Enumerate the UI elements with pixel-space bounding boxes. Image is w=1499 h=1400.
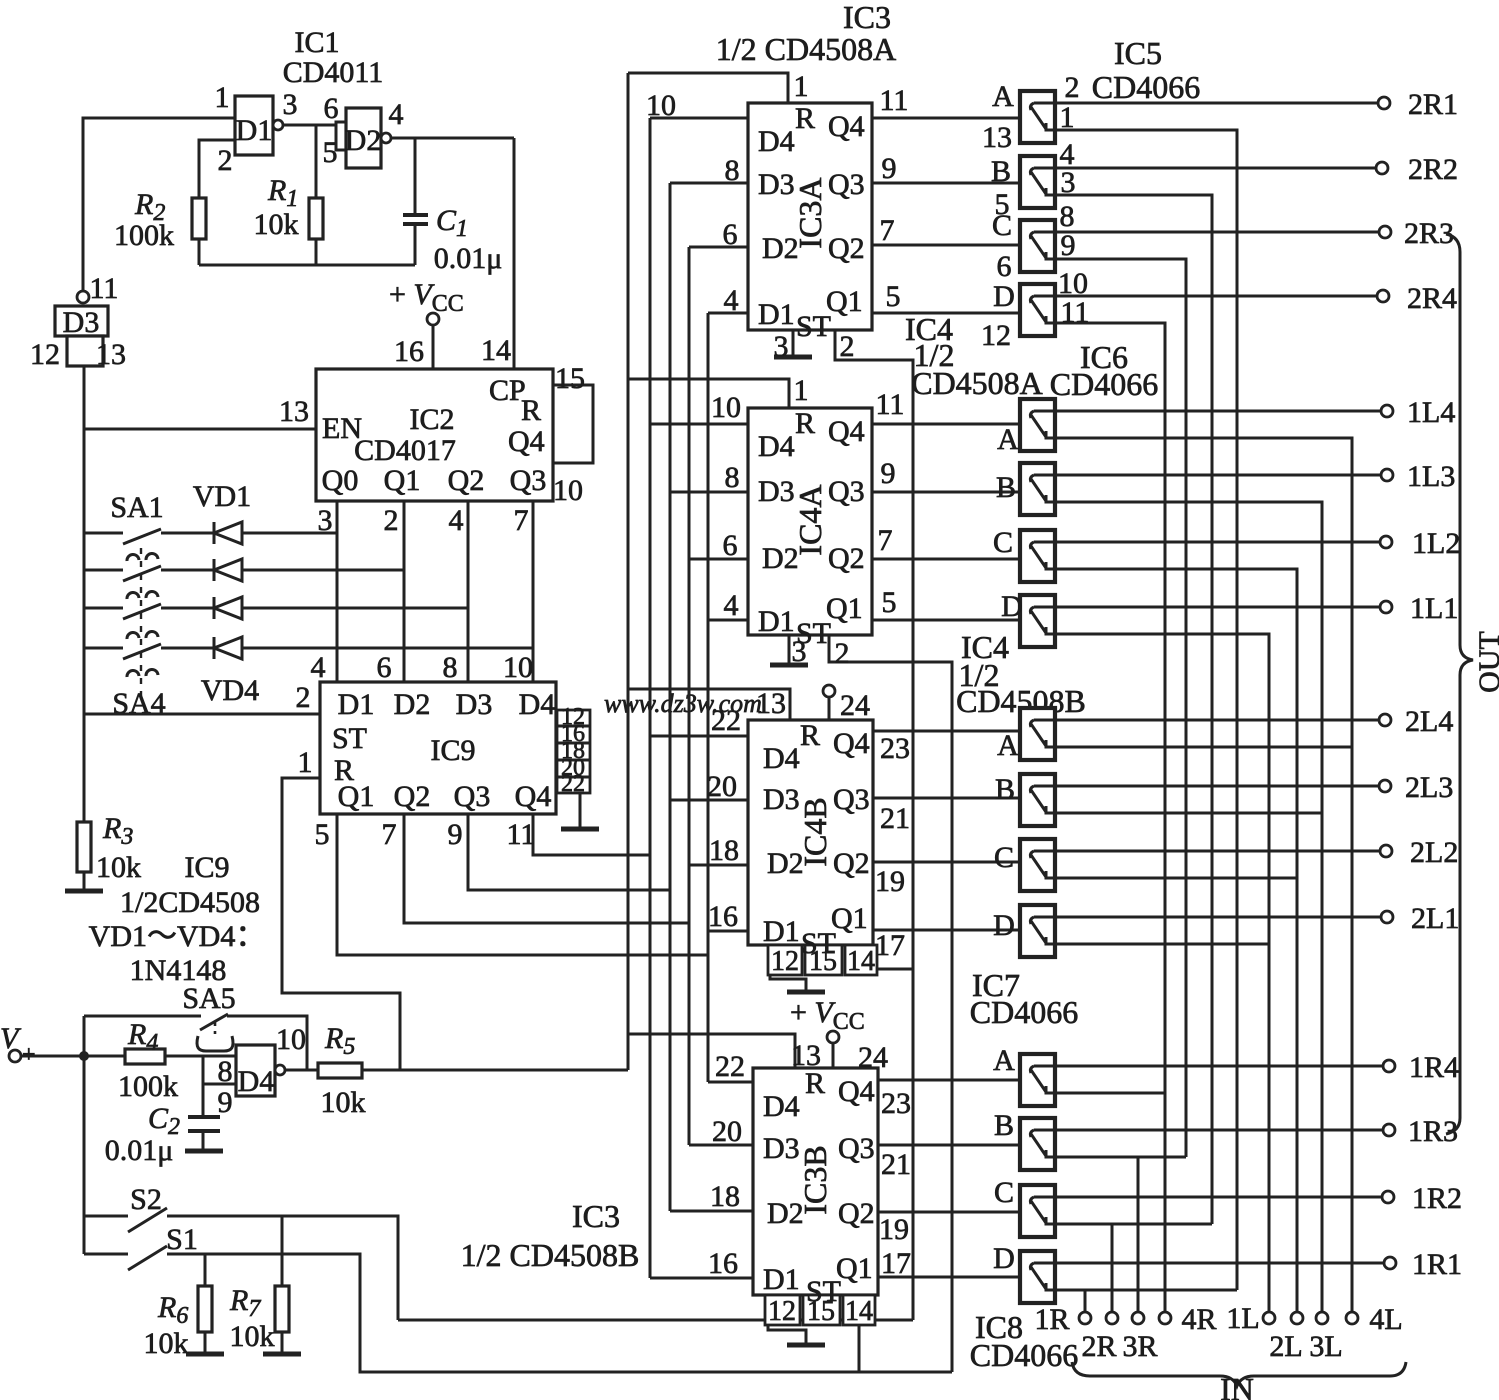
wire ST chain S1 vertical (829, 635, 952, 1372)
wire IC3B D3 input pin20 (689, 1144, 753, 1147)
svg-text:Q4: Q4 (833, 727, 870, 760)
wire IC4B Q3 to switch B (873, 797, 1020, 800)
svg-text:1R: 1R (1034, 1303, 1069, 1336)
svg-text:D2: D2 (394, 688, 431, 721)
wire IC3B Q1 to switch D (878, 1276, 1020, 1279)
svg-text:B: B (995, 773, 1015, 806)
switch SA1 (84, 532, 123, 535)
svg-text:8: 8 (218, 1055, 233, 1088)
svg-text:4L: 4L (1369, 1303, 1402, 1336)
terminal 2L2 (1380, 845, 1392, 857)
svg-text:20: 20 (707, 770, 737, 803)
wire R3 to ground (83, 872, 86, 891)
svg-text:6: 6 (723, 529, 738, 562)
wire VD1 to Q0 column (242, 532, 337, 535)
wire R6 to ground (204, 1332, 207, 1353)
svg-text:2R4: 2R4 (1407, 282, 1457, 315)
svg-text:D3: D3 (763, 783, 800, 816)
wire IC4A pin3 to ground (788, 635, 791, 664)
wire IC4B pin12 ground lead (770, 975, 806, 991)
svg-text:D4: D4 (763, 742, 800, 775)
switch IC6-C (1020, 530, 1055, 582)
svg-text:1L: 1L (1226, 1302, 1259, 1335)
wire 1R stub (1084, 1290, 1087, 1311)
switch IC7-C (1020, 839, 1055, 891)
svg-text:13: 13 (96, 338, 126, 371)
wire IC4A D1 input (708, 619, 748, 622)
wire IC6-D out to 1L1 (1055, 606, 1380, 609)
svg-text:Q3: Q3 (454, 780, 491, 813)
wire IC5-A in to 1R net (1055, 130, 1237, 1290)
svg-text:11: 11 (880, 84, 909, 117)
svg-text:1: 1 (215, 81, 230, 114)
wire IC5-D in to 4R net (1055, 323, 1165, 1311)
wire reset branch to IC4A pin1 (628, 379, 789, 408)
svg-text:23: 23 (881, 1087, 911, 1120)
svg-text:Q2: Q2 (394, 780, 431, 813)
wire IC8-C out to 1R2 (1055, 1196, 1382, 1199)
svg-text:D: D (993, 909, 1015, 942)
svg-text:8: 8 (725, 154, 740, 187)
svg-text:D1: D1 (338, 688, 375, 721)
svg-text:C: C (994, 1176, 1014, 1209)
wire IC7-D in joins 1L net (1055, 943, 1269, 946)
svg-text:IC1: IC1 (295, 26, 340, 59)
svg-text:6: 6 (377, 651, 392, 684)
terminal 2L3 (1379, 780, 1391, 792)
svg-text:17: 17 (875, 929, 905, 962)
wire IC9 Q2 output to data bus D2 (404, 814, 689, 923)
svg-text:Q2: Q2 (838, 1197, 875, 1230)
svg-text:1L4: 1L4 (1407, 396, 1455, 429)
terminal 2L4 (1379, 714, 1391, 726)
svg-text:D: D (993, 1242, 1015, 1275)
svg-text:1R1: 1R1 (1412, 1248, 1462, 1281)
diode VD4 (214, 637, 242, 659)
IC4B box (748, 720, 873, 945)
svg-text:Q4: Q4 (515, 780, 552, 813)
svg-text:7: 7 (382, 818, 397, 851)
switch IC5-B (1020, 156, 1055, 208)
wire IC6-C in to 2L net (1055, 569, 1297, 1311)
svg-text:OUT: OUT (1473, 631, 1499, 693)
svg-text:17: 17 (881, 1247, 911, 1280)
svg-text:IC4B: IC4B (797, 797, 833, 866)
svg-text:D1: D1 (763, 1263, 800, 1296)
svg-text:21: 21 (880, 802, 910, 835)
svg-text:Q2: Q2 (448, 464, 485, 497)
svg-text:14: 14 (845, 1296, 873, 1327)
wire IC3B D1 input pin16 (650, 1277, 753, 1280)
svg-text:2: 2 (1065, 71, 1080, 104)
svg-text:9: 9 (448, 818, 463, 851)
terminal 1R1 (1384, 1257, 1396, 1269)
svg-text:IC3: IC3 (843, 0, 891, 35)
svg-text:22: 22 (711, 704, 741, 737)
ground IC4A pin3 (770, 663, 808, 668)
wire data bus Q3 vertical (669, 183, 672, 1211)
wire IC4A Q1 to switch D (872, 619, 1020, 622)
svg-text:10: 10 (553, 474, 583, 507)
wire IC6-A in to 4L net (1055, 438, 1352, 1311)
wire D2 output to CP line (391, 137, 514, 140)
wire data bus Q1 vertical (707, 313, 710, 1082)
svg-text:2: 2 (384, 504, 399, 537)
wire R7 upper lead (281, 1216, 284, 1286)
wire S2 to ST chain (167, 1216, 398, 1320)
svg-text:2L: 2L (1269, 1330, 1302, 1363)
svg-text:5: 5 (315, 818, 330, 851)
wire R4 to D4 pin8 (165, 1055, 236, 1058)
wire IC5-D out to 2R4 (1055, 295, 1377, 298)
ground IC4B (787, 990, 825, 995)
wire IC4B Q2 to switch C (873, 861, 1020, 864)
wire IC3B pin14 drop to S1 line (858, 1325, 861, 1372)
wire D4 output to R5 (285, 1069, 318, 1072)
svg-text:Q1: Q1 (826, 592, 863, 625)
svg-text:D: D (1001, 590, 1023, 623)
svg-text:B: B (994, 1109, 1014, 1142)
brace OUT (1446, 234, 1473, 1134)
wire reset branch to IC3B pin13 (628, 1034, 795, 1068)
svg-text:IC3B: IC3B (797, 1145, 833, 1214)
svg-text:4: 4 (724, 589, 739, 622)
svg-text:4: 4 (311, 651, 326, 684)
wire D4 pin9 stub (203, 1083, 236, 1086)
wire CP vertical to IC2 pin14 (513, 138, 516, 369)
wire C2 to ground (202, 1131, 205, 1150)
wire IC4B Vcc stub pin24 (828, 696, 831, 720)
terminal 4L (1346, 1312, 1358, 1324)
gate D4 (236, 1045, 275, 1096)
wire IC6-D in to 1L net (1055, 634, 1269, 1311)
svg-text:D4: D4 (758, 125, 795, 158)
svg-text:Q2: Q2 (828, 232, 865, 265)
svg-text:CD4066: CD4066 (970, 994, 1078, 1030)
wire IC6-A out to 1L4 (1055, 410, 1381, 413)
wire stack to ground (579, 793, 582, 828)
wire IC7-C out to 2L2 (1055, 850, 1380, 853)
svg-text:D1: D1 (236, 114, 273, 147)
terminal 1R2 (1382, 1191, 1394, 1203)
pin box 14 of IC3B (843, 1295, 875, 1325)
svg-text:12: 12 (981, 319, 1011, 352)
terminal 1R3 (1383, 1124, 1395, 1136)
terminal 4R (1159, 1312, 1171, 1324)
svg-text:Q0: Q0 (322, 464, 359, 497)
wire IC3B D4 input pin22 (708, 1081, 753, 1084)
wire IC9 Q1 output to data bus D1 (337, 814, 708, 955)
svg-text:D: D (993, 280, 1015, 313)
svg-text:2: 2 (296, 681, 311, 714)
svg-text:R: R (800, 719, 820, 752)
svg-text:Q1: Q1 (836, 1252, 873, 1285)
resistor R5 (318, 1063, 362, 1078)
wire R6 upper lead (204, 1254, 207, 1286)
svg-text:D3: D3 (763, 1132, 800, 1165)
gate D2 (346, 108, 381, 168)
wire D4 input tie (202, 1056, 205, 1117)
wire R5 output to reset bus (362, 1069, 628, 1072)
svg-text:2R1: 2R1 (1408, 88, 1458, 121)
terminal V+ (9, 1050, 21, 1062)
svg-text:S2: S2 (130, 1183, 162, 1216)
svg-text:3L: 3L (1309, 1330, 1342, 1363)
svg-text:B: B (996, 471, 1016, 504)
svg-text:1: 1 (298, 746, 313, 779)
wire IC3B D2 input pin18 (670, 1210, 753, 1213)
ground C2 (185, 1149, 223, 1154)
svg-text:4: 4 (724, 284, 739, 317)
svg-text:S1: S1 (166, 1223, 198, 1256)
wire IC8-A out to 1R4 (1055, 1065, 1383, 1068)
svg-text:2R: 2R (1081, 1330, 1116, 1363)
wire R2 bottom to rail (198, 239, 201, 265)
svg-text:12: 12 (768, 1296, 796, 1327)
svg-text:ST: ST (796, 310, 831, 343)
svg-text:Q4: Q4 (508, 425, 545, 458)
svg-text:Q1: Q1 (384, 464, 421, 497)
wire IC3A D4 input (650, 117, 748, 120)
switch SA5 contact (197, 1036, 233, 1051)
switch IC8-C (1020, 1185, 1055, 1237)
ground IC3A pin3 (774, 355, 812, 360)
pin box 15 of IC4B (805, 945, 842, 975)
svg-text:IC3: IC3 (572, 1198, 620, 1234)
svg-text:7: 7 (514, 504, 529, 537)
wire IC6-C out to 1L2 (1055, 541, 1380, 544)
wire IC8-A in joins 4R net (1055, 1092, 1165, 1095)
svg-text:1R2: 1R2 (1412, 1182, 1462, 1215)
svg-text:5: 5 (323, 136, 338, 169)
svg-text:CD4017: CD4017 (354, 434, 456, 467)
terminal 2L (1291, 1312, 1303, 1324)
svg-text:D4: D4 (763, 1090, 800, 1123)
terminal 1L2 (1380, 536, 1392, 548)
capacitor C1 (403, 213, 428, 217)
IC3B box (753, 1068, 878, 1295)
node junction V+ (79, 1051, 89, 1061)
wire IC5-B in to 2R net (1055, 195, 1212, 1224)
svg-text:1L3: 1L3 (1407, 460, 1455, 493)
wire node to R1 top (315, 125, 318, 198)
gate D3 (55, 306, 108, 336)
svg-text:D4: D4 (519, 688, 556, 721)
svg-text:18: 18 (710, 1180, 740, 1213)
svg-text:5: 5 (882, 586, 897, 619)
svg-text:10k: 10k (144, 1327, 189, 1360)
wire IC4B D4 input pin22 (650, 735, 748, 738)
wire Q0 column to IC9 D1 (336, 501, 339, 682)
svg-text:11: 11 (507, 818, 536, 851)
svg-text:14: 14 (847, 946, 875, 977)
svg-text:IC4A: IC4A (792, 484, 828, 555)
svg-text:7: 7 (880, 214, 895, 247)
wire IC3B Vcc stub pin24 (832, 1042, 835, 1068)
svg-text:4: 4 (449, 504, 464, 537)
terminal 1L (1263, 1312, 1275, 1324)
wire IC4A Q2 to switch C (872, 558, 1020, 561)
svg-text:R: R (521, 394, 541, 427)
switch IC8-A (1020, 1054, 1055, 1106)
svg-text:0.01μ: 0.01μ (105, 1134, 174, 1167)
svg-text:16: 16 (708, 1247, 738, 1280)
switch SA5 blade (200, 1014, 228, 1030)
svg-text:15: 15 (555, 362, 585, 395)
svg-text:A: A (992, 80, 1014, 113)
svg-text:20: 20 (712, 1115, 742, 1148)
wire IC7-C in joins 2L net (1055, 877, 1297, 880)
svg-text:0.01μ: 0.01μ (434, 242, 503, 275)
diode VD3 (214, 597, 242, 619)
wire IC3B Q2 to switch C (878, 1211, 1020, 1214)
svg-text:2: 2 (840, 330, 855, 363)
terminal 2R2 (1376, 162, 1388, 174)
svg-text:1/2CD4508: 1/2CD4508 (120, 886, 260, 919)
wire IC9 Q4 output to data bus D4 (533, 814, 650, 855)
svg-text:Q4: Q4 (838, 1075, 875, 1108)
svg-text:Q1: Q1 (826, 285, 863, 318)
wire IC3A D1 input (708, 312, 748, 315)
svg-text:CD4011: CD4011 (283, 56, 384, 89)
IC2 box (316, 369, 553, 501)
switch S2 (84, 1215, 128, 1218)
svg-text:D3: D3 (63, 306, 100, 339)
wire SA5 rail to D4 output node (227, 1016, 307, 1070)
svg-text:CD4066: CD4066 (1050, 366, 1158, 402)
svg-text:1: 1 (1060, 101, 1075, 134)
svg-text:24: 24 (840, 689, 870, 722)
wire reset branch to IC3A pin1 (628, 73, 788, 103)
svg-text:1: 1 (794, 70, 809, 103)
terminal 1L4 (1381, 405, 1393, 417)
svg-text:1R4: 1R4 (1409, 1051, 1459, 1084)
svg-text:1/2 CD4508A: 1/2 CD4508A (716, 31, 896, 67)
terminal 2R1 (1378, 97, 1390, 109)
svg-text:3: 3 (774, 330, 789, 363)
svg-text:IC9: IC9 (185, 851, 230, 884)
wire IC7-D out to 2L1 (1055, 916, 1381, 919)
wire IC5-B out to 2R2 (1055, 167, 1376, 170)
svg-text:2: 2 (835, 637, 850, 670)
wire VD2 to Q1 column (242, 569, 404, 572)
wire IC3A Q3 to switch B (872, 182, 1020, 185)
wire IC3A Q1 to switch D (872, 312, 1020, 315)
resistor R3 (77, 822, 91, 872)
svg-text:ST: ST (806, 1275, 841, 1308)
wire IC8-B in joins 3R net (1055, 1156, 1186, 1159)
svg-text:18: 18 (709, 834, 739, 867)
svg-text:14: 14 (481, 334, 511, 367)
svg-text:5: 5 (886, 280, 901, 313)
svg-text:B: B (991, 155, 1011, 188)
svg-text:R: R (795, 102, 815, 135)
svg-text:A: A (997, 423, 1019, 456)
svg-text:D3: D3 (456, 688, 493, 721)
wire IC4B D3 input pin20 (670, 799, 748, 802)
svg-text:D1: D1 (758, 298, 795, 331)
svg-text:7: 7 (878, 524, 893, 557)
svg-text:10: 10 (646, 89, 676, 122)
wire Q2 column to IC9 D3 (467, 501, 470, 682)
ground R6 (186, 1352, 224, 1357)
svg-text:Q3: Q3 (833, 783, 870, 816)
svg-text:D3: D3 (758, 475, 795, 508)
svg-text:IC3A: IC3A (792, 177, 828, 248)
svg-text:1L2: 1L2 (1412, 527, 1460, 560)
wire D2 input pins 6,5 (336, 122, 346, 150)
svg-text:19: 19 (879, 1213, 909, 1246)
svg-text:D4: D4 (238, 1065, 275, 1098)
switch IC8-D (1020, 1251, 1055, 1303)
wire IC3A D2 input (689, 246, 748, 249)
svg-text:8: 8 (725, 461, 740, 494)
IC9 unused pin stack 12,16,18,20,22 (557, 710, 590, 793)
svg-text:1L1: 1L1 (1410, 592, 1458, 625)
svg-text:D1: D1 (758, 605, 795, 638)
wire data bus Q4 vertical (649, 118, 652, 1278)
svg-text:2L3: 2L3 (1405, 771, 1453, 804)
wire IC4B D2 input pin18 (689, 864, 748, 867)
wire reset loop pins 15-10 (553, 385, 593, 463)
wire IC8-D in joins 1R net (1055, 1289, 1237, 1292)
pin box 14 of IC4B (845, 945, 877, 975)
svg-text:4R: 4R (1181, 1303, 1216, 1336)
terminal 3R (1132, 1312, 1144, 1324)
svg-text:10k: 10k (96, 851, 141, 884)
wire IC5-A out to 2R1 (1055, 102, 1378, 105)
terminal 1L1 (1380, 601, 1392, 613)
svg-text:13: 13 (756, 687, 786, 720)
svg-text:2L1: 2L1 (1411, 902, 1459, 935)
terminal 2R4 (1377, 290, 1389, 302)
svg-text:3: 3 (283, 88, 298, 121)
resistor R1 (309, 198, 323, 239)
terminal 3L (1316, 1312, 1328, 1324)
wire reset bus vertical (627, 73, 630, 1070)
svg-text:IC5: IC5 (1114, 35, 1162, 71)
svg-text:13: 13 (279, 395, 309, 428)
svg-text:SA1: SA1 (110, 491, 163, 524)
svg-text:11: 11 (1061, 296, 1090, 329)
svg-text:A: A (993, 1044, 1015, 1077)
svg-text:Q3: Q3 (828, 475, 865, 508)
svg-text:Q2: Q2 (833, 847, 870, 880)
svg-text:1/2 CD4508B: 1/2 CD4508B (461, 1237, 640, 1273)
switch IC6-D (1020, 595, 1055, 647)
svg-text:10k: 10k (230, 1320, 275, 1353)
wire reset branch to IC4B pin13 (628, 689, 790, 720)
terminal 1R (1079, 1312, 1091, 1324)
wire IC5-C out to 2R3 (1055, 231, 1379, 234)
terminal 1L3 (1381, 469, 1393, 481)
svg-text:3R: 3R (1122, 1330, 1157, 1363)
svg-text:VD1～VD4：: VD1～VD4： (89, 920, 266, 953)
wire IC3A Q2 to switch C (872, 244, 1020, 247)
svg-text:IC9: IC9 (431, 734, 476, 767)
resistor R7 (275, 1286, 289, 1332)
svg-text:D2: D2 (345, 124, 382, 157)
wire IC4A D4 input (650, 423, 748, 426)
diode VD1 (214, 522, 242, 544)
wire R1 bottom to rail (315, 239, 318, 265)
ground of IC9 stack (561, 827, 599, 832)
wire S2 line under pin boxes (398, 1319, 913, 1322)
svg-text:9: 9 (881, 457, 896, 490)
pin box 12 of IC4B (768, 945, 802, 975)
svg-text:VD4: VD4 (201, 674, 259, 707)
switch IC5-D (1020, 284, 1055, 336)
